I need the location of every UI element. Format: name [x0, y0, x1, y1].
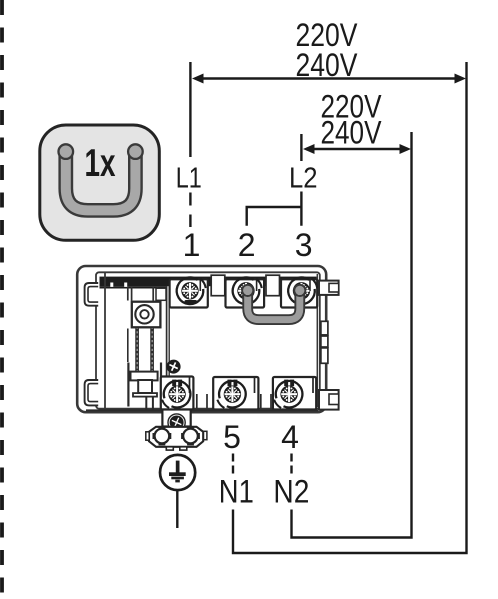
housing terminal 1 — [170, 279, 208, 307]
earth bracket — [149, 427, 203, 447]
block screw box — [132, 302, 161, 328]
svg-text:1x: 1x — [85, 142, 116, 185]
svg-text:4: 4 — [281, 419, 299, 455]
wire N2 run — [292, 132, 412, 538]
svg-text:2: 2 — [238, 227, 256, 263]
wire L2 branch — [247, 192, 302, 226]
dimension 1 arrow line — [196, 77, 462, 80]
block right tab bottom — [319, 390, 339, 410]
screw terminal earth — [159, 379, 192, 410]
block floor edge — [86, 409, 318, 411]
housing terminal 3 — [281, 279, 317, 307]
earth tab screw — [168, 414, 185, 431]
terminal 4 lead — [290, 454, 292, 474]
block right wall bumps — [321, 321, 328, 335]
jumper icon box 1x — [40, 125, 160, 240]
screw terminal 3 — [288, 277, 317, 304]
dimension 2 left extension line — [300, 134, 302, 161]
block left clip bottom — [85, 380, 99, 405]
screw terminal 4 — [271, 379, 304, 410]
housing terminal 4 — [273, 377, 316, 410]
block wire slots — [211, 275, 225, 296]
ground symbol — [160, 455, 195, 490]
earth tab below block — [162, 410, 190, 427]
block bottom slot lines — [197, 394, 271, 409]
wire L1 lead — [189, 193, 191, 206]
earth bracket hole left — [153, 427, 172, 446]
screw terminal 2 — [233, 277, 262, 304]
terminal 5 lead — [232, 454, 234, 474]
terminal block outer body — [77, 266, 326, 412]
jumper icon tube — [66, 152, 136, 210]
terminal block inner body — [96, 272, 320, 408]
block right tab top — [319, 281, 339, 295]
screw terminal 5 — [215, 379, 248, 410]
svg-text:N2: N2 — [273, 474, 309, 510]
svg-text:L1: L1 — [176, 162, 202, 194]
housing step lines — [190, 377, 314, 394]
svg-text:1: 1 — [183, 227, 201, 263]
housing terminal 5L — [161, 377, 194, 410]
housing terminal 2 — [226, 279, 265, 307]
dimension 1 left extension line — [189, 62, 191, 157]
block small screw head — [164, 357, 183, 376]
jumper bridge terminals 2-3 — [248, 291, 300, 320]
dashed page border (left) — [0, 0, 4, 594]
svg-text:5: 5 — [223, 419, 241, 455]
svg-text:N1: N1 — [219, 474, 254, 510]
block divider wall — [166, 286, 168, 377]
block threaded rails — [128, 287, 158, 301]
wire N1 run — [233, 62, 467, 553]
svg-text:3: 3 — [295, 227, 313, 263]
block left clip top — [85, 283, 99, 306]
wire earth lead — [176, 491, 178, 529]
block top dark bar — [100, 277, 317, 287]
screw terminal 1 — [177, 277, 206, 304]
block clamp bracket — [127, 363, 129, 407]
svg-text:240V: 240V — [321, 115, 383, 151]
svg-text:L2: L2 — [289, 162, 318, 194]
earth bracket hole right — [181, 427, 200, 446]
block left compartment walls — [104, 272, 106, 408]
block notch above screw box — [156, 288, 166, 300]
dimension 2 arrow line — [306, 148, 408, 151]
housing terminal 5 — [213, 377, 258, 410]
